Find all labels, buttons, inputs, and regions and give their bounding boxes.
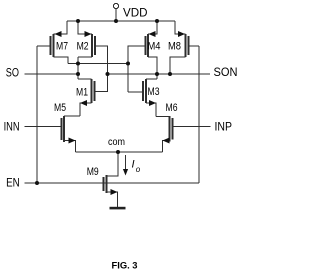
wire M5 source leg [64,141,76,153]
wire M7 gate lead [37,45,51,47]
svg-text:M7: M7 [56,41,68,53]
wire VDD rail [67,20,175,22]
transistor M7 [51,34,54,57]
wire SO line [25,73,79,75]
wire M3 drain leg [146,78,157,80]
arrow M6 source [163,138,170,144]
svg-text:INP: INP [215,121,233,133]
wire M6 source leg [163,141,170,153]
wire SON line [108,73,211,75]
junction M4 source to VDD rail [155,19,159,23]
wire M9 source leg [107,192,118,207]
node com [116,150,120,154]
svg-text:com: com [108,136,125,148]
svg-text:M3: M3 [148,86,160,98]
wire M2 drain leg [78,56,92,58]
wire M4 gate lead [128,46,146,92]
svg-text:M4: M4 [148,41,161,53]
wire M8 gate lead [189,45,200,47]
wire M1 source leg [80,103,92,116]
wire M5 drain leg [64,115,80,117]
transistor M1 [92,79,95,103]
svg-text:VDD: VDD [123,8,148,20]
wire M3 gate lead [128,91,143,93]
wire M4 drain leg [148,57,157,79]
transistor M2 [92,34,95,57]
junction M2 source to VDD rail [76,19,80,23]
svg-text:M1: M1 [76,87,88,99]
svg-text:M6: M6 [166,102,178,114]
arrow M5 source [69,138,76,144]
junction node SO drain bus right / M4 gate tap [126,62,130,66]
ground [110,207,126,210]
arrow M4 source [149,31,156,37]
arrow M8 source [178,31,185,37]
svg-text:o: o [136,165,141,174]
svg-text:M2: M2 [77,41,89,53]
transistor M8 [186,34,189,57]
junction VDD terminal to rail [114,19,118,23]
wire M4 source leg [148,21,157,34]
transistor M6 [170,116,173,142]
wire M2 source leg [78,21,92,34]
wire com line [76,151,163,153]
wire M1 drain leg [78,78,92,80]
wire M8 source leg [175,21,186,34]
arrow M9 source [111,189,118,195]
svg-text:M8: M8 [168,41,181,53]
svg-text:FIG. 3: FIG. 3 [112,261,138,272]
transistor M3 [143,79,146,103]
wire EN line [25,182,200,184]
transistor M5 [62,116,65,142]
arrow M3 source [149,100,156,106]
transistor M9 [104,175,107,193]
wire M3 source leg [146,103,156,117]
arrow M2 source [85,31,92,37]
node SON left / M1 M2 gate tap [106,72,110,76]
wire com to M9 drain [107,152,119,176]
wire M2 gate lead [95,46,108,74]
current I0 arrow [123,155,128,176]
wire INN line [25,126,62,128]
wire left EN riser [36,46,38,183]
transistor M4 [146,34,149,57]
junction M8 drain on SON [168,72,172,76]
arrow M7 source [55,31,62,37]
svg-text:M9: M9 [87,166,99,178]
svg-text:I: I [132,159,135,171]
svg-text:M5: M5 [54,102,66,114]
svg-text:SO: SO [6,68,19,80]
wire M7 source leg [54,21,68,34]
junction M3 M4 drains on SON [155,72,159,76]
arrow M1 source [80,100,87,106]
svg-text:EN: EN [6,178,20,190]
svg-text:INN: INN [4,121,20,133]
wire M7 drain leg [54,57,69,64]
junction M7 gate on EN line [35,181,39,185]
wire M8 drain leg [170,57,186,74]
wire M1 gate lead [95,74,108,92]
wire M6 drain leg [156,116,170,118]
junction node SO drain bus left [76,62,80,66]
node SO [76,72,80,76]
VDD terminal [113,3,118,21]
wire INP line [173,126,211,128]
wire right EN riser [198,46,200,183]
wire SO drain bus [68,63,128,65]
svg-text:SON: SON [214,67,238,79]
wire SO stub [77,57,79,79]
